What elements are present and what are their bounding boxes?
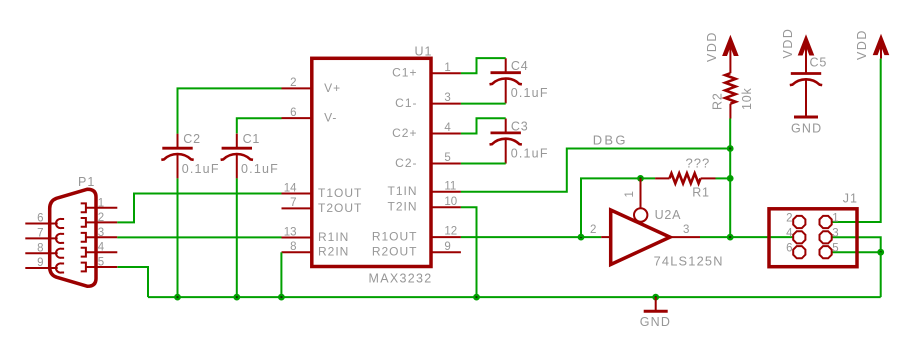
svg-text:VDD: VDD — [855, 29, 869, 60]
junction R1 right — [727, 175, 734, 182]
wire U1 pin5 to C3 bottom — [461, 163, 506, 165]
P1 pin 8 contact — [56, 249, 64, 258]
svg-text:6: 6 — [786, 243, 792, 255]
svg-text:8: 8 — [37, 242, 43, 254]
U1 pin 9 (R2OUT) stub — [431, 251, 461, 253]
wire C2 bottom to bus — [177, 178, 179, 297]
wire C1 bottom to bus — [236, 178, 238, 297]
svg-text:3: 3 — [98, 227, 104, 239]
svg-text:R1IN: R1IN — [318, 230, 349, 244]
wire VDD/R2 vertical down to output row — [729, 119, 731, 238]
junction C1-bus — [233, 294, 240, 301]
power VDD symbol above C5 — [781, 28, 815, 59]
U1 pin 11 (T1IN) stub — [431, 191, 461, 193]
capacitor C4 — [490, 58, 522, 103]
wire U1 pin4 to C3 top — [461, 118, 506, 133]
VDD3 stub — [880, 41, 882, 59]
svg-text:C1: C1 — [243, 132, 261, 146]
wire P1 pin5 to ground bus — [118, 267, 149, 297]
svg-text:???: ??? — [686, 156, 711, 171]
svg-text:4: 4 — [786, 228, 793, 240]
wire U1 pin1 to C4 top — [461, 58, 506, 73]
svg-text:MAX3232: MAX3232 — [369, 271, 433, 285]
wire DBG net U1 T1IN to R2 vertical — [461, 149, 730, 192]
wire U1 pin3 to C4 bottom — [461, 103, 506, 105]
wire U1 R2IN to bus — [280, 252, 282, 297]
J1 pin 5 pad — [820, 246, 832, 258]
junction C2-bus — [174, 294, 181, 301]
wire U1 T2IN to bus — [461, 207, 477, 297]
svg-text:U1: U1 — [415, 45, 433, 59]
P1 pin 9 lead — [25, 267, 57, 269]
wire branch up to R1 row — [581, 178, 655, 237]
capacitor C5 — [790, 42, 822, 117]
junction R1 left / U2A enable — [637, 175, 644, 182]
U1 pin 2 (V+) stub — [282, 87, 312, 89]
svg-text:R2: R2 — [711, 92, 725, 110]
wire U2A output to J1 pin4 — [700, 236, 793, 238]
svg-text:R1: R1 — [692, 185, 710, 199]
junction GND-bus — [652, 294, 659, 301]
connector J1 box — [769, 209, 857, 267]
wire right vertical to bus — [880, 252, 882, 297]
svg-text:V+: V+ — [324, 81, 341, 95]
svg-text:13: 13 — [284, 226, 297, 238]
U1 pin 7 (T2OUT) stub — [282, 207, 312, 209]
junction pin3/pin5 — [877, 249, 884, 256]
svg-text:VDD: VDD — [705, 31, 719, 62]
U1 pin 3 (C1-) stub — [431, 103, 461, 105]
P1 pin 5 contact — [81, 263, 86, 272]
P1 pin 7 lead — [25, 237, 57, 239]
J1 pin 3 pad — [820, 231, 832, 243]
svg-text:12: 12 — [444, 226, 457, 238]
svg-text:T1OUT: T1OUT — [318, 186, 362, 200]
P1 pin 9 contact — [56, 263, 64, 272]
op-amp/buffer U2A triangle — [611, 210, 670, 265]
capacitor C2 — [161, 134, 193, 179]
J1 pin 6 pad — [793, 246, 805, 258]
P1 pin 2 contact — [81, 218, 86, 227]
svg-text:1: 1 — [832, 212, 838, 224]
svg-text:T1IN: T1IN — [387, 184, 417, 198]
U2A pin 3 lead — [670, 236, 700, 238]
svg-text:C2: C2 — [183, 132, 201, 146]
svg-text:1: 1 — [98, 197, 104, 209]
P1 pin 4 lead — [86, 251, 117, 253]
svg-text:3: 3 — [444, 92, 450, 104]
svg-text:4: 4 — [444, 122, 451, 134]
P1 pin 2 lead — [86, 221, 117, 223]
svg-text:VDD: VDD — [781, 28, 795, 59]
svg-text:2: 2 — [98, 212, 104, 224]
J1 pin 2 pad — [793, 216, 805, 228]
svg-text:6: 6 — [37, 213, 43, 225]
svg-text:J1: J1 — [843, 192, 858, 206]
J1 pin 1 pad — [820, 216, 832, 228]
U2A pin 2 lead — [601, 236, 609, 238]
svg-text:3: 3 — [683, 224, 689, 236]
U1 pin 14 (T1OUT) stub — [282, 193, 312, 195]
svg-text:11: 11 — [444, 180, 456, 192]
wire P1 pin3 to U1 R1IN — [117, 236, 281, 238]
svg-text:5: 5 — [444, 152, 450, 164]
svg-text:C4: C4 — [511, 59, 529, 73]
svg-text:T2IN: T2IN — [387, 200, 417, 214]
J1 pin 4 pad — [793, 231, 805, 243]
P1 pin 6 contact — [56, 219, 64, 228]
svg-text:C3: C3 — [511, 119, 529, 133]
U1 pin 5 (C2-) stub — [431, 163, 461, 165]
U2A enable bubble — [634, 208, 647, 221]
svg-text:0.1uF: 0.1uF — [182, 162, 220, 176]
svg-text:1: 1 — [624, 191, 636, 197]
U1 pin 12 (R1OUT) stub — [431, 236, 461, 238]
resistor R2 — [725, 42, 735, 119]
svg-text:2: 2 — [290, 77, 296, 89]
svg-text:P1: P1 — [78, 175, 95, 189]
P1 pin 1 lead — [86, 207, 117, 209]
svg-text:1: 1 — [444, 62, 450, 74]
svg-text:6: 6 — [290, 107, 296, 119]
svg-text:10: 10 — [444, 196, 457, 208]
svg-text:14: 14 — [284, 182, 297, 194]
svg-text:C5: C5 — [810, 55, 828, 69]
svg-text:7: 7 — [290, 197, 296, 209]
P1 pin 1 contact — [81, 203, 86, 212]
svg-text:R1OUT: R1OUT — [372, 230, 418, 244]
P1 pin 3 contact — [81, 233, 86, 242]
svg-text:GND: GND — [791, 121, 822, 135]
connector P1 outline — [50, 189, 96, 286]
svg-text:9: 9 — [37, 257, 43, 269]
U1 pin 4 (C2+) stub — [431, 133, 461, 135]
svg-text:3: 3 — [832, 228, 838, 240]
svg-text:7: 7 — [37, 228, 43, 240]
svg-text:10k: 10k — [740, 87, 754, 110]
svg-text:0.1uF: 0.1uF — [511, 146, 549, 160]
svg-text:T2OUT: T2OUT — [318, 201, 362, 215]
svg-text:8: 8 — [290, 241, 296, 253]
svg-text:C2-: C2- — [395, 156, 417, 170]
junction DBG-vertical — [727, 145, 734, 152]
svg-text:GND: GND — [640, 315, 671, 329]
svg-text:C1-: C1- — [395, 96, 417, 110]
svg-text:0.1uF: 0.1uF — [511, 86, 549, 100]
U1 pin 13 (R1IN) stub — [282, 237, 312, 239]
svg-text:C1+: C1+ — [392, 66, 417, 80]
ground symbol GND under C5 — [791, 117, 822, 135]
svg-text:V-: V- — [324, 111, 337, 125]
wire J1 pin5 to bus — [832, 251, 881, 253]
svg-text:R2IN: R2IN — [318, 245, 349, 259]
P1 pin 7 contact — [56, 234, 64, 243]
junction T2IN-bus — [473, 294, 480, 301]
capacitor C3 — [490, 119, 522, 164]
wire J1 pin3 down — [832, 237, 881, 252]
U1 pin 10 (T2IN) stub — [431, 206, 461, 208]
wire U1 V+ to C2 — [178, 88, 282, 133]
svg-text:74LS125N: 74LS125N — [654, 254, 724, 269]
power VDD symbol at far right — [855, 29, 889, 60]
svg-text:0.1uF: 0.1uF — [241, 162, 279, 176]
power VDD symbol above R2 — [705, 31, 739, 62]
U1 pin 1 (C1+) stub — [431, 72, 461, 74]
svg-text:R2OUT: R2OUT — [372, 245, 418, 259]
U1 pin 8 (R2IN) stub — [282, 251, 312, 253]
svg-text:U2A: U2A — [655, 208, 682, 222]
IC U1 MAX3232 box — [312, 58, 431, 266]
P1 pin 3 lead — [86, 236, 117, 238]
junction R1OUT branch — [578, 234, 585, 241]
wire R1 right to vertical — [716, 177, 731, 179]
svg-text:9: 9 — [444, 241, 450, 253]
wire U1 R1OUT to U2A input — [461, 236, 601, 238]
ground stub — [655, 297, 657, 311]
wire U1 V- to C1 — [237, 118, 282, 133]
wire ground bus — [148, 296, 881, 298]
U2A pin 1 lead — [640, 178, 642, 208]
svg-text:5: 5 — [832, 243, 838, 255]
svg-text:2: 2 — [590, 224, 596, 236]
svg-text:5: 5 — [98, 257, 104, 269]
resistor R1 — [655, 173, 715, 183]
wire J1 pin1 to VDD3 — [832, 59, 881, 222]
wire P1 pin2 to U1 T1OUT — [117, 194, 281, 223]
P1 pin 6 lead — [25, 223, 57, 225]
P1 pin 8 lead — [25, 252, 57, 254]
junction output-vertical — [727, 234, 734, 241]
ground symbol GND bottom — [640, 311, 671, 329]
P1 pin 4 contact — [81, 248, 86, 257]
svg-text:4: 4 — [98, 242, 105, 254]
svg-text:DBG: DBG — [593, 132, 628, 147]
capacitor C1 — [221, 134, 253, 179]
svg-text:2: 2 — [786, 212, 792, 224]
svg-text:C2+: C2+ — [392, 126, 417, 140]
U1 pin 6 (V-) stub — [282, 117, 312, 119]
junction R2IN-bus — [278, 294, 285, 301]
P1 pin 5 lead — [86, 266, 117, 268]
